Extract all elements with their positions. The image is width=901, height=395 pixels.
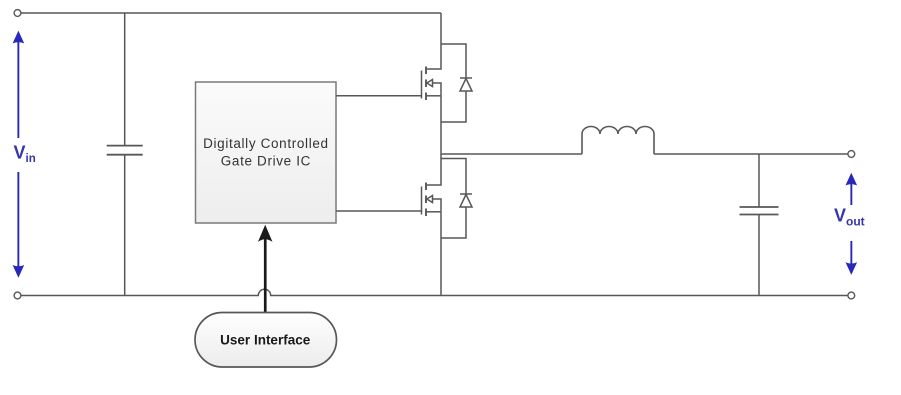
terminal Vin+ (14, 10, 21, 17)
wire: input cap bottom lead (124, 155, 126, 296)
diode D2 (Q2 body diode) (441, 159, 472, 239)
svg-text:Gate Drive IC: Gate Drive IC (221, 154, 311, 169)
Vin down arrow (13, 172, 25, 278)
wire: output cap top lead (758, 154, 760, 207)
block U1: Digitally Controlled Gate Drive IC (196, 82, 337, 223)
wire: IC to Q1 gate (336, 95, 422, 97)
oval: User Interface (195, 313, 337, 368)
wire: top rail to Q1 drain (427, 13, 441, 69)
terminal Vin- (14, 292, 21, 299)
diode D1 (Q1 body diode) (441, 44, 472, 122)
Vout up arrow (846, 173, 858, 205)
svg-text:User Interface: User Interface (220, 332, 311, 347)
transistor Q1 (high-side NMOS) (422, 67, 442, 101)
Vin up arrow (13, 31, 25, 138)
wire: inductor to output terminal (654, 153, 848, 155)
svg-text:Vin: Vin (14, 143, 36, 166)
wire: Q1 source to switch node (440, 96, 442, 154)
wire: Q2 source to bottom rail (440, 212, 442, 296)
wire: bottom rail (with hop over UI arrow) (21, 289, 848, 295)
terminal Vout+ (848, 151, 855, 158)
capacitor C2 (output) (740, 207, 779, 215)
wire: switch node to Q2 drain (427, 154, 441, 185)
wire: output cap bottom lead (758, 215, 760, 296)
svg-text:Vout: Vout (834, 205, 865, 228)
wire: top rail (21, 12, 441, 14)
capacitor C1 (input) (107, 146, 143, 155)
Vout down arrow (846, 241, 858, 275)
terminal Vout- (848, 292, 855, 299)
arrow: User Interface to IC (258, 225, 273, 313)
wire: IC to Q2 gate (336, 210, 422, 212)
transistor Q2 (low-side NMOS) (422, 183, 442, 217)
wire: switch node to inductor (441, 153, 582, 155)
svg-text:Digitally Controlled: Digitally Controlled (203, 136, 329, 151)
inductor L1 (582, 127, 654, 155)
wire: input cap top lead (124, 13, 126, 146)
